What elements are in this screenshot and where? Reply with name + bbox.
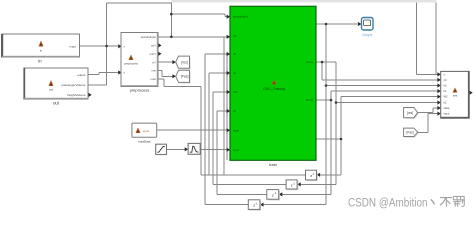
svg-text:h0: h0 — [233, 52, 237, 56]
svg-text:W2: W2 — [444, 95, 449, 99]
svg-text:trainy: trainy — [306, 60, 313, 64]
svg-text:loadData: loadData — [138, 140, 150, 144]
svg-text:CSDN @Ambition: CSDN @Ambition — [348, 195, 428, 209]
svg-text:b1: b1 — [444, 89, 447, 93]
svg-text:preprocess: preprocess — [130, 88, 150, 93]
svg-text:trg: trg — [233, 34, 237, 38]
svg-text:sampleInput: sampleInput — [233, 15, 248, 19]
svg-text:[res]: [res] — [407, 111, 413, 115]
svg-text:preprocess: preprocess — [124, 62, 138, 66]
svg-text:[res]: [res] — [181, 61, 188, 65]
svg-text:input: input — [143, 129, 149, 133]
svg-text:b2: b2 — [444, 101, 447, 105]
svg-text:freightVolume: freightVolume — [67, 93, 86, 97]
svg-text:minY: minY — [150, 52, 157, 56]
svg-text:sampleInput: sampleInput — [141, 35, 156, 39]
svg-text:input: input — [444, 112, 450, 116]
svg-text:[Pas]: [Pas] — [406, 131, 413, 135]
svg-text:W1: W1 — [233, 90, 238, 94]
svg-text:output: output — [77, 73, 86, 77]
svg-text:state: state — [444, 106, 450, 110]
svg-text:in: in — [40, 49, 43, 53]
svg-text:test: test — [453, 94, 458, 98]
svg-text:Scope: Scope — [362, 33, 372, 37]
svg-text:passengerVolume: passengerVolume — [61, 83, 85, 87]
svg-text:h0: h0 — [444, 84, 447, 88]
svg-text:c0: c0 — [233, 71, 236, 75]
svg-text:input: input — [233, 148, 239, 152]
svg-text:out: out — [49, 88, 53, 92]
svg-text:nout: nout — [151, 77, 157, 81]
svg-text:y0: y0 — [444, 78, 447, 82]
svg-text:b1: b1 — [233, 109, 237, 113]
svg-text:XTest: XTest — [306, 98, 313, 102]
svg-text:ctrY: ctrY — [151, 44, 156, 48]
svg-text:out: out — [53, 101, 60, 106]
svg-text:[Pas]: [Pas] — [181, 75, 189, 79]
svg-text:train: train — [269, 162, 277, 167]
svg-text:trY: trY — [152, 60, 156, 64]
svg-text:state: state — [233, 128, 240, 132]
svg-text:min: min — [151, 69, 156, 73]
svg-text:GRU_Training: GRU_Training — [263, 87, 285, 91]
svg-text:input: input — [69, 44, 76, 48]
